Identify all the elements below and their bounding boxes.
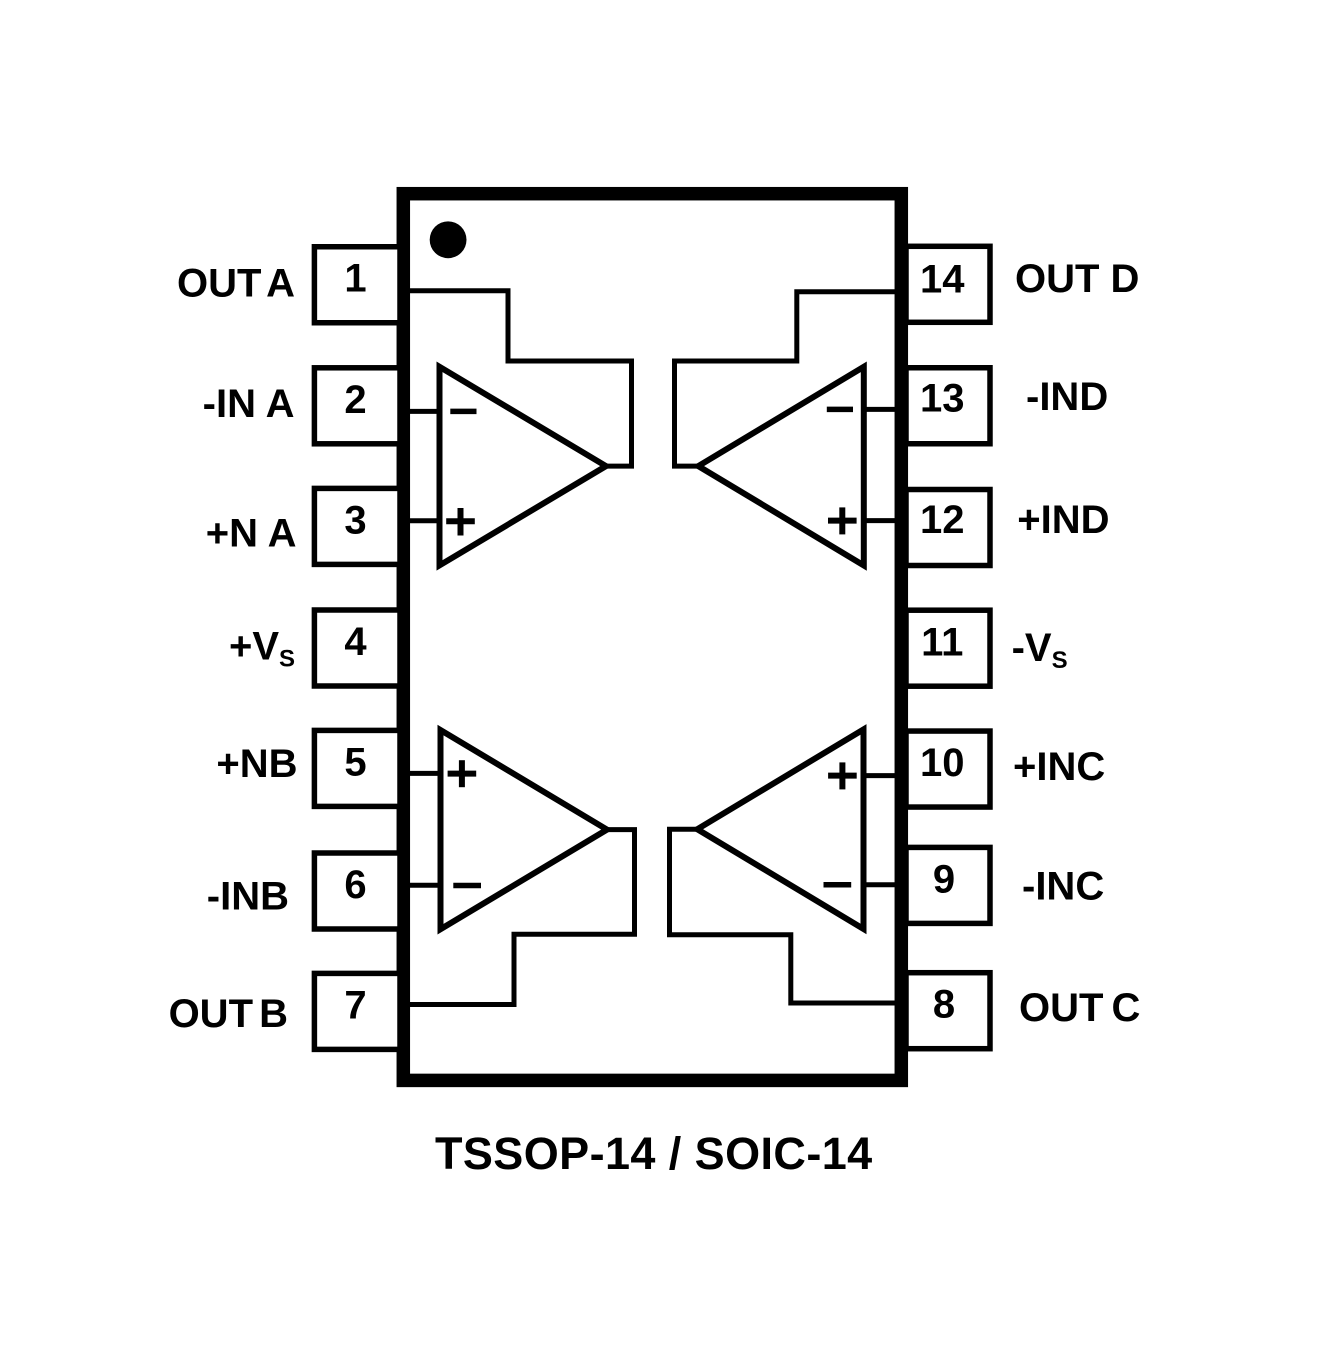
- op-amp A inverting input minus sign: [450, 409, 476, 415]
- svg-text:1: 1: [344, 257, 366, 301]
- pin 1 box: [314, 247, 400, 323]
- svg-text:8: 8: [933, 983, 955, 1027]
- pin 5 box: [314, 730, 400, 806]
- op-amp B triangle: [441, 730, 608, 929]
- pin 11 box: [906, 610, 990, 686]
- op-amp A triangle: [440, 367, 607, 566]
- pin 8 box: [906, 973, 990, 1049]
- op-amp A non-inverting input plus sign: [446, 508, 475, 536]
- svg-text:9: 9: [933, 857, 955, 901]
- pin 2 box: [314, 368, 400, 444]
- pin 6 box: [314, 853, 400, 929]
- op-amp B inverting input minus sign: [453, 883, 481, 889]
- svg-text:13: 13: [920, 376, 965, 420]
- pin 9 box: [906, 847, 990, 923]
- pin 7 box: [314, 973, 400, 1049]
- svg-text:14: 14: [920, 258, 965, 302]
- svg-text:2: 2: [344, 378, 366, 422]
- svg-text:+NB: +NB: [216, 742, 297, 786]
- pin 3 box: [314, 488, 400, 564]
- svg-text:+IND: +IND: [1017, 498, 1109, 542]
- wire pin13 to op-amp D inverting input: [863, 407, 898, 412]
- svg-text:7: 7: [344, 983, 366, 1027]
- wire pin9 to op-amp C inverting input: [863, 882, 898, 887]
- op-amp D inverting input minus sign: [827, 407, 853, 413]
- wire pin2 to op-amp A inverting input: [407, 409, 441, 414]
- svg-text:4: 4: [344, 620, 367, 664]
- pin 12 box: [906, 490, 990, 566]
- pin 10 box: [906, 731, 990, 807]
- wire op-amp D output to pin 14: [675, 292, 898, 466]
- wire pin12 to op-amp D non-inverting input: [863, 518, 898, 523]
- svg-text:-INC: -INC: [1022, 865, 1104, 909]
- svg-text:+INC: +INC: [1013, 745, 1105, 789]
- op-amp D triangle: [698, 367, 864, 566]
- op-amp C non-inverting input plus sign: [828, 762, 857, 789]
- svg-text:5: 5: [344, 740, 366, 784]
- wire op-amp B output to pin 7: [407, 830, 635, 1005]
- pin 4 box: [314, 610, 400, 686]
- pin 14 box: [906, 246, 990, 322]
- svg-text:3: 3: [344, 498, 366, 542]
- wire pin10 to op-amp C non-inverting input: [863, 773, 898, 778]
- svg-text:OUT D: OUT D: [1015, 257, 1139, 301]
- op-amp D non-inverting input plus sign: [828, 507, 857, 534]
- IC package outline TSSOP-14/SOIC-14 body: [403, 194, 901, 1081]
- svg-text:11: 11: [921, 620, 963, 664]
- svg-text:-INB: -INB: [207, 874, 289, 918]
- wire pin6 to op-amp B inverting input: [407, 883, 442, 888]
- op-amp C inverting input minus sign: [824, 882, 852, 888]
- pin-1 indicator dot: [430, 221, 467, 258]
- svg-text:OUT B: OUT B: [169, 992, 288, 1036]
- pin 13 box: [906, 368, 990, 444]
- svg-text:TSSOP-14 / SOIC-14: TSSOP-14 / SOIC-14: [435, 1128, 873, 1179]
- svg-text:-IN A: -IN A: [203, 382, 295, 426]
- wire pin3 to op-amp A non-inverting input: [407, 518, 441, 523]
- wire op-amp C output to pin 8: [670, 829, 898, 1003]
- wire pin5 to op-amp B non-inverting input: [407, 771, 442, 776]
- op-amp B non-inverting input plus sign: [448, 760, 477, 787]
- wire op-amp A output to pin 1: [407, 291, 632, 466]
- svg-text:OUT A: OUT A: [177, 262, 295, 306]
- op-amp C triangle: [697, 729, 863, 929]
- svg-text:+N A: +N A: [206, 512, 297, 556]
- svg-text:6: 6: [344, 863, 366, 907]
- svg-text:OUT C: OUT C: [1019, 986, 1140, 1030]
- svg-text:12: 12: [920, 498, 965, 542]
- svg-text:-IND: -IND: [1026, 375, 1108, 419]
- svg-text:10: 10: [920, 741, 965, 785]
